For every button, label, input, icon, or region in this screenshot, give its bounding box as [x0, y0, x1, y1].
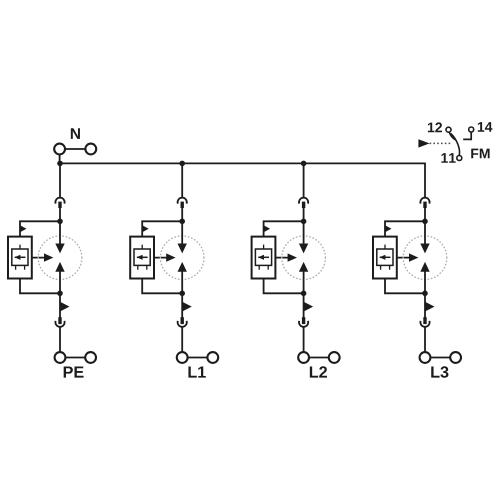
wire: lower electrode to bottom junction (PE) [59, 271, 61, 294]
terminal L2 right circle [329, 352, 340, 363]
GDT bottom lead 2 (L2) [267, 265, 269, 269]
plug-in contact top (PE) pin [58, 202, 61, 208]
terminal L1 link wire [188, 357, 208, 359]
wire: trigger circuit to bottom junction (PE) [20, 279, 60, 294]
wire: lower electrode to bottom junction (L3) [424, 271, 426, 294]
node: bus junction at L1 branch [179, 161, 185, 167]
FM mechanical link dotted line [430, 142, 452, 144]
terminal PE left circle [55, 352, 66, 363]
spark gap lower electrode arrow (L2) [299, 262, 308, 272]
plug-in contact top (L2) pin [302, 202, 305, 208]
terminal N left circle [54, 144, 65, 155]
wire: lower electrode to bottom junction (L1) [181, 271, 183, 294]
trigger arrow into spark gap (L1) [154, 257, 170, 259]
trigger circuit box (PE) [8, 237, 32, 279]
thermal disconnector flag (L2) [304, 302, 314, 312]
dotted enclosure circle of spark gap (L3) [403, 236, 447, 280]
label N [71, 128, 80, 139]
GDT bottom lead 1 (L2) [258, 265, 260, 269]
disconnector flag on trigger path (L3) [385, 225, 392, 232]
thermal disconnector flag (L3) [425, 302, 435, 312]
terminal N right circle [85, 144, 96, 155]
plug-in contact bottom (L1) pin [181, 317, 184, 324]
wire: lower plug to terminal L2 [303, 327, 305, 353]
GDT bottom lead 2 (PE) [24, 265, 26, 269]
trigger arrow into spark gap (L3) [397, 257, 413, 259]
node: bus junction at PE branch [57, 161, 63, 167]
plug-in contact bottom (L2) socket [299, 321, 308, 327]
plug-in contact bottom (L2) pin [302, 317, 305, 324]
trigger circuit box (L2) [252, 237, 276, 279]
terminal PE link wire [65, 357, 85, 359]
spark gap lower electrode arrow (L3) [420, 262, 429, 272]
wire: top junction to upper electrode (L2) [303, 221, 305, 245]
wire: top junction to upper electrode (L1) [181, 221, 183, 245]
wire: plug to top junction (L3) [424, 208, 426, 222]
thermal disconnector flag (PE) [60, 302, 70, 312]
label 14 [478, 122, 493, 132]
GDT electrode symbol (L2) [258, 256, 269, 258]
terminal L3 left circle [420, 352, 431, 363]
node: PE top junction [57, 219, 63, 225]
wire: bottom junction to lower plug (L1) [181, 293, 183, 318]
trigger circuit box (L1) [130, 237, 154, 279]
disconnector flag on trigger path (L2) [264, 225, 271, 232]
spark gap upper electrode arrow (L3) [420, 244, 429, 254]
plug-in contact bottom (L3) socket [420, 321, 429, 327]
wire: bottom junction to lower plug (L3) [424, 293, 426, 318]
node: L2 bottom junction [301, 291, 307, 297]
plug-in contact top (L1) pin [181, 202, 184, 208]
gas discharge tube box inside trigger circuit (L1) [134, 249, 150, 265]
terminal L1 right circle [207, 352, 218, 363]
plug-in contact top (PE) socket [55, 198, 64, 204]
wire: trigger circuit to bottom junction (L3) [385, 279, 425, 294]
node: L3 bottom junction [422, 291, 428, 297]
wire: top junction to trigger circuit (PE) [20, 221, 60, 236]
GDT bottom lead 1 (PE) [15, 265, 17, 269]
GDT electrode symbol (L3) [380, 256, 391, 258]
GDT electrode symbol (L1) [137, 256, 148, 258]
FM contact 14 hook [463, 132, 471, 139]
plug-in contact top (L1) socket [178, 198, 187, 204]
wire: top junction to upper electrode (PE) [59, 221, 61, 245]
wire: lower electrode to bottom junction (L2) [303, 271, 305, 294]
wire: lower plug to terminal L3 [424, 327, 426, 353]
trigger circuit box (L3) [373, 237, 397, 279]
spark gap upper electrode arrow (L1) [178, 244, 187, 254]
wire: N terminal down to bus [59, 154, 61, 164]
GDT top lead (L1) [141, 245, 143, 249]
label FM [471, 149, 489, 159]
wire: plug to top junction (L1) [181, 208, 183, 222]
label L1 [188, 366, 205, 377]
wire: bus down to L1 plug-in contact [181, 163, 183, 198]
terminal N link wire [65, 148, 85, 150]
wire: horizontal bus N to L3 branch [60, 162, 426, 164]
plug-in contact bottom (PE) socket [55, 321, 64, 327]
wire: top junction to trigger circuit (L1) [142, 221, 182, 236]
plug-in contact bottom (L3) pin [423, 317, 426, 324]
trigger arrow into spark gap (PE) [32, 257, 48, 259]
GDT bottom lead 1 (L1) [137, 265, 139, 269]
terminal L2 left circle [298, 352, 309, 363]
label PE [64, 366, 84, 377]
FM changeover contact: mechanical link arrow [418, 139, 429, 147]
trigger arrow into spark gap (L2) [275, 257, 291, 259]
dotted enclosure circle of spark gap (L1) [160, 236, 204, 280]
plug-in contact top (L3) pin [423, 202, 426, 208]
gas discharge tube box inside trigger circuit (L2) [255, 249, 271, 265]
label 12 [428, 122, 442, 132]
label L3 [431, 366, 448, 377]
FM contact moving arm 11-12 [451, 133, 460, 155]
wire: bus down to L2 plug-in contact [303, 163, 305, 198]
GDT bottom lead 2 (L3) [389, 265, 391, 269]
wire: top junction to trigger circuit (L2) [264, 221, 304, 236]
spark gap lower electrode arrow (PE) [55, 262, 64, 272]
wire: bus down to PE plug-in contact [59, 163, 61, 198]
spark gap lower electrode arrow (L1) [178, 262, 187, 272]
FM contact 12 circle [446, 127, 451, 132]
thermal disconnector flag (L1) [182, 302, 192, 312]
wire: bottom junction to lower plug (L2) [303, 293, 305, 318]
plug-in contact bottom (PE) pin [58, 317, 61, 324]
plug-in contact top (L3) socket [420, 198, 429, 204]
node: L2 top junction [301, 219, 307, 225]
label 11 [441, 153, 455, 163]
FM contact 14 circle [469, 127, 474, 132]
spark gap upper electrode arrow (PE) [55, 244, 64, 254]
terminal L3 link wire [430, 357, 450, 359]
gas discharge tube box inside trigger circuit (L3) [377, 249, 393, 265]
wire: trigger circuit to bottom junction (L1) [142, 279, 182, 294]
disconnector flag on trigger path (PE) [20, 225, 27, 232]
wire: bus down to L3 plug-in contact [424, 163, 426, 198]
wire: bottom junction to lower plug (PE) [59, 293, 61, 318]
node: L1 top junction [179, 219, 185, 225]
terminal L3 right circle [450, 352, 461, 363]
spark gap upper electrode arrow (L2) [299, 244, 308, 254]
GDT top lead (L2) [263, 245, 265, 249]
node: PE bottom junction [57, 291, 63, 297]
FM contact 11 circle [457, 156, 462, 161]
label L2 [310, 366, 327, 377]
wire: plug to top junction (L2) [303, 208, 305, 222]
node: L3 top junction [422, 219, 428, 225]
GDT top lead (L3) [384, 245, 386, 249]
wire: lower plug to terminal L1 [181, 327, 183, 353]
GDT bottom lead 1 (L3) [380, 265, 382, 269]
wire: plug to top junction (PE) [59, 208, 61, 222]
plug-in contact bottom (L1) socket [178, 321, 187, 327]
GDT top lead (PE) [19, 245, 21, 249]
wire: trigger circuit to bottom junction (L2) [264, 279, 304, 294]
gas discharge tube box inside trigger circuit (PE) [12, 249, 28, 265]
node: L1 bottom junction [179, 291, 185, 297]
wire: top junction to upper electrode (L3) [424, 221, 426, 245]
wire: lower plug to terminal PE [59, 327, 61, 353]
dotted enclosure circle of spark gap (PE) [38, 236, 82, 280]
GDT bottom lead 2 (L1) [146, 265, 148, 269]
terminal L2 link wire [309, 357, 329, 359]
dotted enclosure circle of spark gap (L2) [282, 236, 326, 280]
terminal PE right circle [85, 352, 96, 363]
FM contact 12 stub [449, 132, 456, 140]
wire: top junction to trigger circuit (L3) [385, 221, 425, 236]
GDT electrode symbol (PE) [15, 256, 26, 258]
terminal L1 left circle [177, 352, 188, 363]
node: bus junction at L2 branch [301, 161, 307, 167]
plug-in contact top (L2) socket [299, 198, 308, 204]
disconnector flag on trigger path (L1) [142, 225, 149, 232]
